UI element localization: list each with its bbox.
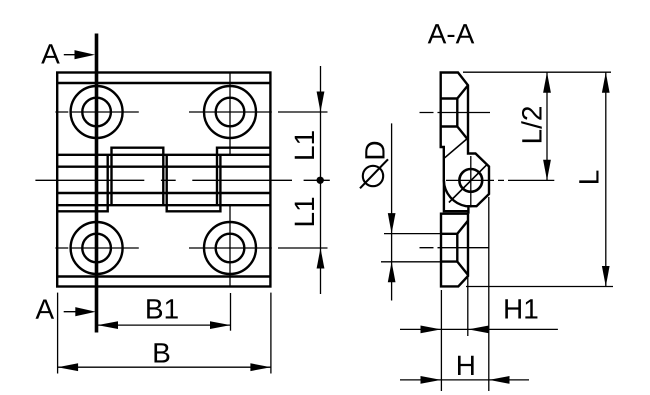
label H — [458, 356, 474, 375]
hole bottom-left outer — [71, 222, 123, 274]
label H1 — [505, 299, 537, 318]
title A-A — [428, 24, 475, 43]
arrow H left-pointing — [489, 376, 510, 384]
H extension left — [440, 290, 442, 391]
knuckle bottom tab middle — [167, 155, 221, 212]
hole top-right inner — [216, 98, 245, 127]
hole top-right outer — [204, 86, 256, 138]
arrow A bottom — [64, 311, 80, 313]
label L1 bottom — [295, 198, 314, 225]
label A top — [41, 44, 60, 63]
arrow A top — [64, 54, 80, 56]
countersink cone top hole — [457, 85, 468, 139]
hatch line neck — [444, 139, 467, 159]
knuckle top tab right — [217, 148, 270, 206]
boss step segment — [467, 206, 469, 213]
hole top-left inner — [82, 98, 111, 127]
arrow H right-pointing — [421, 376, 442, 384]
centerline hole row bottom — [55, 247, 327, 249]
barrel line top full — [57, 154, 270, 156]
label L/2 — [521, 107, 542, 142]
countersink cone bottom hole — [457, 221, 468, 275]
label L — [579, 171, 598, 183]
hole cylinder bottom (section) — [441, 234, 458, 262]
OD extension top — [384, 233, 444, 235]
arrow OD up — [388, 262, 396, 283]
barrel line 2 — [57, 165, 270, 167]
hole cylinder top (section) — [441, 99, 458, 127]
H extension right — [488, 197, 490, 391]
extension bottom edge (section) — [466, 286, 613, 288]
dimension B line — [58, 366, 271, 368]
centerline main horizontal — [35, 179, 329, 181]
arrow H1 left-pointing — [468, 326, 489, 334]
H1 extension right — [467, 277, 469, 336]
label B1 — [147, 299, 178, 318]
body outline — [57, 73, 270, 287]
arrow L1 up — [317, 248, 325, 269]
node dot L1 — [317, 177, 324, 184]
hole top-left outer — [71, 86, 123, 138]
OD extension bottom — [381, 261, 444, 263]
bottom leaf outline (section) — [441, 214, 469, 287]
arrow L up — [602, 72, 610, 93]
extension top edge (section) — [463, 71, 611, 73]
label B — [154, 343, 169, 362]
barrel line 3 — [57, 192, 270, 194]
dimension OD line — [391, 123, 393, 300]
knuckle bottom tab left — [57, 155, 107, 212]
label A bottom — [36, 300, 55, 319]
knuckle top tab left — [112, 148, 164, 206]
dimension H line — [400, 379, 529, 381]
arrow L/2 down — [543, 160, 551, 181]
hatch line boss — [449, 164, 488, 203]
dimension H1 line — [400, 328, 558, 330]
arrow B1 left — [98, 321, 119, 329]
dimension L line — [605, 72, 607, 286]
dimension L1 line — [320, 66, 322, 294]
knuckle left face lower (section) — [444, 180, 468, 211]
centerline right holes vertical bottom — [229, 205, 231, 286]
label L1 top — [295, 131, 314, 158]
arrow L down — [602, 266, 610, 287]
centerline pin vertical — [470, 156, 472, 207]
dimension L/2 line — [546, 72, 548, 180]
top leaf outline (section) — [441, 73, 489, 207]
hole bottom-right inner — [216, 234, 245, 263]
top plate inner line — [57, 82, 270, 84]
hole bottom-right outer — [204, 222, 256, 274]
dimension B extension right — [270, 293, 272, 374]
arrow B right — [250, 363, 271, 371]
barrel line bottom full — [57, 204, 270, 206]
centerline hole top (section) — [420, 112, 491, 114]
dimension B1 line — [97, 324, 231, 326]
dimension B extension left — [57, 293, 59, 374]
bottom plate inner line — [57, 275, 270, 277]
pin circle — [459, 169, 482, 192]
arrow B1 right — [210, 321, 231, 329]
label OD — [365, 142, 384, 159]
centerline pin horizontal — [446, 179, 554, 181]
arrow L1 down — [317, 92, 325, 113]
centerline hole row top — [55, 111, 327, 113]
hole bottom-left inner — [82, 234, 111, 263]
dimension B1 extension right — [230, 293, 232, 331]
centerline hole bottom (section) — [420, 247, 489, 249]
centerline right holes vertical top — [229, 73, 231, 155]
arrow OD down — [388, 213, 396, 234]
section cutting plane line A-A — [95, 34, 99, 333]
arrow B left — [58, 363, 79, 371]
arrow L/2 up — [543, 72, 551, 93]
arrow H1 right-pointing — [421, 326, 442, 334]
